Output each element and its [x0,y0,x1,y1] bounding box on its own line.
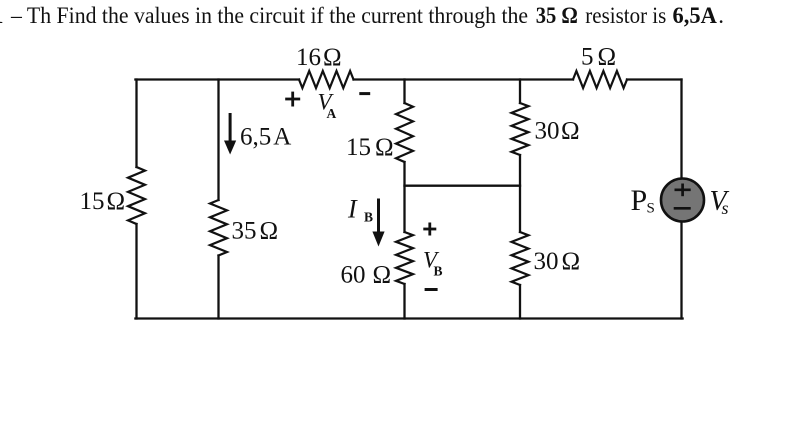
label VB plus sign [423,223,436,236]
wire branch3 middle [403,162,405,232]
svg-text:P: P [631,184,648,217]
resistor R30 upper 30ohm [512,103,529,155]
wire branch3 top [403,80,405,104]
resistor R15m middle 15ohm [396,103,413,162]
svg-text:35Ω: 35Ω [232,218,279,245]
wire left upper [135,80,137,168]
resistor R60 60ohm [396,232,413,284]
resistor R16 16ohm [299,71,354,88]
wire branch2 lower [217,256,219,319]
wire branch4 middle [519,155,521,232]
svg-text:16Ω: 16Ω [296,44,342,71]
wire left lower [135,224,137,319]
svg-text:S: S [647,201,655,217]
current arrow IB [372,199,384,247]
svg-text:15Ω: 15Ω [346,134,394,161]
svg-text:15Ω: 15Ω [80,188,126,215]
wire top middle segment [354,78,574,80]
resistor R15 left 15ohm [128,167,145,224]
wire branch4 top [519,80,521,104]
wire branch2 upper [217,80,219,201]
svg-text:resistor is: resistor is [585,3,666,28]
wire top left segment [135,78,299,80]
svg-text:35 Ω: 35 Ω [536,3,578,28]
wire right lower [680,222,682,319]
svg-text:5Ω: 5Ω [581,44,616,71]
svg-text:30Ω: 30Ω [534,248,581,275]
svg-text:.: . [718,3,724,28]
wire crossbar node [405,185,521,187]
wire branch3 bottom [403,284,405,319]
wire right upper [680,80,682,179]
svg-text:6,5A: 6,5A [240,124,291,151]
label VB minus sign [425,288,438,291]
svg-text:6,5A: 6,5A [673,3,718,28]
wire bottom [135,317,682,319]
svg-text:B: B [364,210,373,225]
svg-text:A: A [327,106,337,121]
resistor R5 5ohm [573,71,627,88]
wire branch4 bottom [519,285,521,319]
svg-text:30Ω: 30Ω [535,118,580,145]
svg-text:B: B [434,264,443,279]
svg-text:1: 1 [0,3,4,28]
wire top right segment [627,78,682,80]
title text [0,3,724,28]
label VA minus sign [359,92,370,95]
current arrow 6,5A [224,113,236,155]
svg-text:– Th Find the values in the ci: – Th Find the values in the circuit if t… [10,3,528,28]
label VA plus sign [285,92,300,107]
svg-text:I: I [347,195,358,224]
svg-text:s: s [722,198,729,218]
resistor R35 35ohm [210,200,227,256]
voltage source PS [661,179,704,222]
resistor R30 lower 30ohm [512,232,529,285]
